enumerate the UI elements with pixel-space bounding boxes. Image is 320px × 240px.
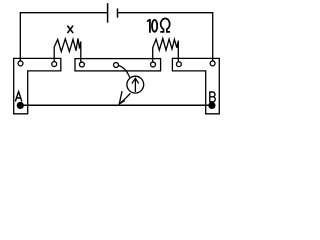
terminal on left strip (left) (18, 61, 23, 66)
terminal on middle strip (left) (79, 62, 84, 67)
wire top-right (battery to right strip) (118, 13, 213, 60)
battery cell: short plate (117, 9, 119, 17)
value label 10 ohm: omega (160, 19, 170, 32)
copper strip left (L-shaped, node A side) (14, 58, 61, 113)
value label 10 ohm: digit 0 (152, 20, 157, 32)
battery cell: long plate (107, 4, 109, 22)
value label 10 ohm: digit 1 (147, 19, 150, 33)
jockey arrow on slide wire (119, 92, 124, 104)
node A label (15, 92, 22, 102)
terminal on middle strip (right) (151, 62, 156, 67)
wire galvanometer to jockey (119, 93, 130, 104)
node B label (209, 92, 215, 102)
resistor X (unknown) (54, 38, 81, 61)
galvanometer G needle arrow (132, 78, 138, 91)
value label x (67, 26, 73, 33)
terminal on right strip (left) (176, 62, 181, 67)
wire galvanometer to middle strip terminal (119, 66, 130, 78)
galvanometer G body (127, 76, 144, 93)
copper strip right (L-shaped, node B side) (172, 58, 219, 113)
wire top-left (battery to left strip) (20, 13, 107, 61)
terminal on left strip (right) (52, 62, 57, 67)
slide wire A to B (20, 104, 212, 106)
resistor R 10 ohm (153, 38, 179, 61)
node A contact dot (17, 102, 24, 109)
node B contact dot (208, 102, 215, 109)
terminal on middle strip (center, to galvanometer) (114, 63, 119, 68)
terminal on right strip (right) (210, 61, 215, 66)
copper strip middle (75, 59, 161, 71)
